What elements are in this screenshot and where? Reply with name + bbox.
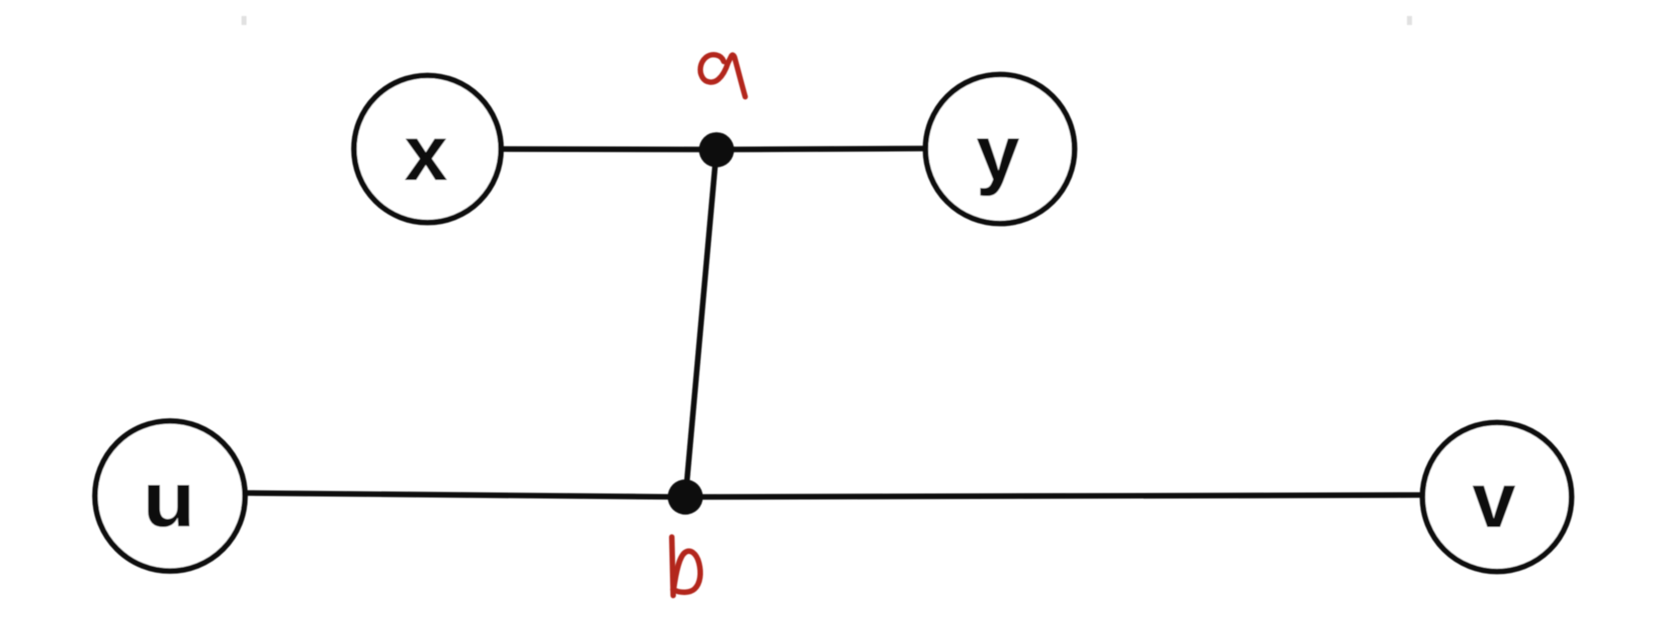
- junction node b (dot): [668, 479, 703, 514]
- vertex circle u: [95, 421, 245, 571]
- junction node a (dot): [699, 132, 734, 167]
- smudge mark right: [1407, 16, 1412, 25]
- smudge mark left: [242, 16, 247, 25]
- wire edge x-a: [500, 146, 717, 152]
- handwritten red label b: [672, 537, 700, 596]
- wire edge a-y: [717, 149, 925, 150]
- wire edge b-v: [686, 495, 1423, 497]
- wire edge a-b: [686, 150, 717, 497]
- svg-text:u: u: [143, 457, 195, 544]
- vertex circle y: [926, 75, 1075, 224]
- svg-text:x: x: [404, 109, 447, 197]
- handwritten red label a: [700, 55, 745, 97]
- svg-text:y: y: [976, 109, 1019, 197]
- svg-text:v: v: [1472, 456, 1516, 544]
- vertex circle x: [354, 76, 501, 223]
- wire edge u-b: [246, 493, 686, 497]
- vertex circle v: [1423, 423, 1572, 572]
